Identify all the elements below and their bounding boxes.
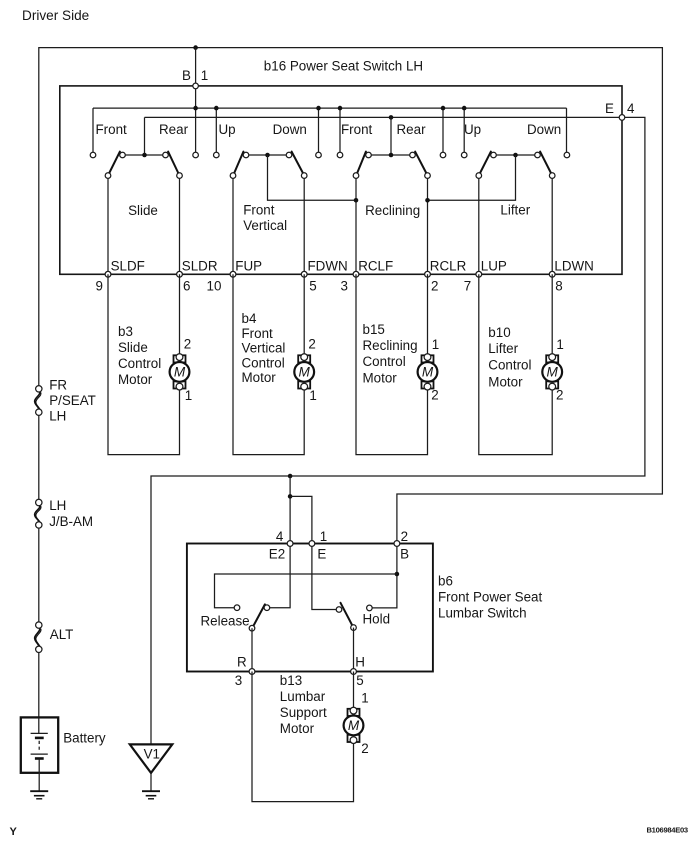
svg-text:SLDF: SLDF (111, 258, 145, 273)
terminal SLDR of b16 (177, 271, 183, 277)
wire E branch (290, 496, 312, 543)
wire B bus drop to contact Front2 (339, 108, 341, 152)
svg-text:FDWN: FDWN (308, 258, 348, 273)
svg-text:2: 2 (401, 529, 408, 544)
fuse FR P/SEAT LH (35, 386, 42, 416)
svg-text:Up: Up (464, 122, 481, 137)
motor b3 Slide Control Motor (170, 354, 190, 390)
wire E bus drop to Reclining common (390, 117, 392, 155)
svg-text:RCLF: RCLF (358, 258, 393, 273)
svg-text:Control: Control (488, 358, 531, 373)
svg-text:2: 2 (308, 336, 315, 351)
terminal LDWN of b16 (549, 271, 555, 277)
terminal B pin2 of b6 (394, 541, 400, 547)
svg-text:LUP: LUP (481, 258, 507, 273)
svg-text:2: 2 (556, 388, 563, 403)
svg-text:5: 5 (356, 673, 363, 688)
wire E bus drop to Slide common (144, 117, 146, 155)
op box b6 Front Power Seat Lumbar Switch (187, 544, 433, 672)
label LH J/B-AM (49, 498, 93, 529)
svg-text:8: 8 (555, 279, 562, 294)
switch Reclining (337, 152, 446, 275)
switch Front Vertical (214, 152, 322, 275)
svg-text:J/B-AM: J/B-AM (49, 514, 93, 529)
svg-text:2: 2 (431, 388, 438, 403)
svg-text:Front: Front (243, 203, 275, 218)
terminal FDWN of b16 (301, 271, 307, 277)
svg-text:2: 2 (431, 279, 438, 294)
svg-text:3: 3 (341, 279, 348, 294)
svg-text:Slide: Slide (128, 203, 158, 218)
svg-text:4: 4 (627, 101, 635, 116)
terminal E pin1 of b6 (309, 541, 315, 547)
svg-text:SLDR: SLDR (182, 258, 218, 273)
wire B bus drop to contact Down1 (318, 108, 320, 152)
svg-text:FR: FR (49, 377, 67, 392)
wire b10 loop (479, 274, 552, 454)
wire B branch to Release contact (215, 574, 397, 608)
svg-text:Support: Support (280, 705, 327, 720)
svg-text:Release: Release (201, 613, 250, 628)
svg-text:4: 4 (276, 529, 284, 544)
svg-text:b16 Power Seat Switch LH: b16 Power Seat Switch LH (264, 58, 423, 73)
wire rail fuse3-battery (38, 649, 40, 717)
junction dot on B bus (338, 106, 343, 111)
junction dot on E bus (389, 115, 394, 120)
wire E internal to Hold arm (312, 544, 336, 610)
junction dot on B bus (193, 106, 198, 111)
svg-text:LH: LH (49, 408, 66, 423)
svg-text:Front: Front (242, 326, 274, 341)
svg-text:H: H (355, 654, 365, 669)
junction dot on RCLR wire (425, 198, 430, 203)
svg-text:6: 6 (183, 279, 190, 294)
terminal SLDF of b16 (105, 271, 111, 277)
terminal RCLF of b16 (353, 271, 359, 277)
svg-text:10: 10 (207, 279, 222, 294)
wire B bus drop to contact Front1 (92, 108, 94, 152)
label b6 Front Power Seat Lumbar Switch (438, 573, 542, 620)
svg-text:b4: b4 (242, 311, 257, 326)
label b13 Lumbar Support Motor (280, 673, 327, 736)
svg-text:Driver Side: Driver Side (22, 8, 89, 23)
svg-text:FUP: FUP (235, 258, 262, 273)
svg-text:9: 9 (96, 279, 103, 294)
terminal E2 pin4 of b6 (287, 541, 293, 547)
svg-text:Lifter: Lifter (500, 202, 530, 217)
svg-text:Slide: Slide (118, 340, 148, 355)
switch Release (234, 604, 270, 671)
svg-text:Motor: Motor (242, 370, 277, 385)
svg-text:Vertical: Vertical (242, 341, 286, 356)
fuse LH J/B-AM (35, 499, 42, 528)
terminal R pin3 of b6 (249, 669, 255, 675)
wire E-link Lifter common to RCLR (428, 155, 516, 200)
wire E2 internal to Release arm (270, 544, 290, 608)
wire rail fuse2-fuse3 (38, 525, 40, 626)
junction dot top line to b16 B (193, 45, 198, 50)
svg-text:Motor: Motor (488, 375, 523, 390)
motor b13 Lumbar Support Motor (344, 707, 364, 743)
svg-text:Lumbar: Lumbar (280, 689, 326, 704)
wire B bus drop to contact Up1 (215, 108, 217, 152)
svg-text:b13: b13 (280, 673, 302, 688)
wire rail fuse1-fuse2 (38, 412, 40, 503)
motor b10 Lifter Control Motor (542, 354, 562, 390)
wire B bus drop to contact Down2 (566, 108, 568, 152)
svg-text:1: 1 (309, 388, 316, 403)
svg-text:1: 1 (432, 337, 439, 352)
ground (battery) (30, 791, 48, 799)
terminal LUP of b16 (476, 271, 482, 277)
label FR P/SEAT LH (49, 377, 96, 423)
svg-text:Reclining: Reclining (363, 338, 418, 353)
svg-text:1: 1 (185, 388, 192, 403)
svg-text:b6: b6 (438, 573, 453, 588)
wire battery B+ net: left rail top, top line, right side down to lumbar B feed (39, 48, 663, 544)
svg-text:Front: Front (96, 122, 128, 137)
terminal B pin1 of b16 (193, 83, 199, 89)
svg-text:M: M (348, 718, 360, 733)
label b4 Front Vertical Control Motor (242, 311, 286, 385)
svg-text:b3: b3 (118, 324, 133, 339)
svg-text:Motor: Motor (118, 372, 153, 387)
svg-text:Motor: Motor (280, 721, 315, 736)
svg-text:E: E (605, 101, 614, 116)
svg-text:3: 3 (235, 673, 242, 688)
svg-text:b15: b15 (363, 322, 385, 337)
svg-text:Down: Down (273, 122, 307, 137)
wire ground net: E pin4 right, down, across to V1 (151, 117, 645, 744)
wire E-link Front Vertical common to RCLF (268, 155, 357, 200)
junction dot on RCLF wire (354, 198, 359, 203)
wire E bus (145, 116, 623, 118)
svg-text:7: 7 (464, 279, 471, 294)
wire B bus (93, 107, 567, 109)
svg-text:Reclining: Reclining (365, 203, 420, 218)
terminal H pin5 of b6 (351, 669, 357, 675)
svg-text:b10: b10 (488, 325, 510, 340)
wire B internal to Hold contact (372, 544, 397, 608)
switch Slide (90, 152, 198, 275)
svg-text:5: 5 (309, 279, 316, 294)
ground symbol V1 (130, 744, 173, 790)
svg-text:Lumbar Switch: Lumbar Switch (438, 606, 527, 621)
battery (21, 717, 58, 790)
svg-text:Rear: Rear (159, 122, 189, 137)
wire E2 drop (289, 476, 291, 544)
svg-text:RCLR: RCLR (430, 258, 467, 273)
svg-text:1: 1 (201, 68, 208, 83)
switch Lifter (461, 152, 569, 275)
svg-text:Y: Y (10, 826, 18, 838)
junction dot ground line to E2 (288, 474, 293, 479)
label b15 Reclining Control Motor (363, 322, 418, 386)
svg-text:B106984E03: B106984E03 (647, 826, 688, 835)
wire B bus drop to contact Rear2 (442, 108, 444, 152)
svg-text:2: 2 (184, 336, 191, 351)
svg-text:1: 1 (361, 690, 368, 705)
op box b16 Power Seat Switch LH (60, 86, 622, 274)
svg-text:M: M (299, 365, 311, 380)
svg-text:Up: Up (219, 122, 236, 137)
svg-text:E2: E2 (269, 546, 285, 561)
ground (V1) (142, 791, 160, 799)
junction dot on B bus (316, 106, 321, 111)
junction dot on B bus (462, 106, 467, 111)
svg-text:Rear: Rear (397, 122, 427, 137)
wire H to lumbar motor (353, 672, 355, 711)
junction dot on B bus (441, 106, 446, 111)
svg-text:1: 1 (320, 529, 327, 544)
fuse ALT (35, 622, 42, 653)
junction dot on B bus (214, 106, 219, 111)
wire b3 loop (108, 274, 180, 454)
label b10 Lifter Control Motor (488, 325, 531, 390)
svg-text:R: R (237, 654, 247, 669)
svg-text:V1: V1 (144, 746, 160, 761)
motor b4 Front Vertical Control Motor (294, 354, 314, 390)
svg-text:Motor: Motor (363, 371, 398, 386)
wire b16 pin1 B vertical (195, 48, 197, 153)
svg-text:ALT: ALT (50, 627, 74, 642)
svg-text:Down: Down (527, 122, 561, 137)
svg-text:B: B (400, 546, 409, 561)
svg-text:E: E (317, 546, 326, 561)
svg-text:Battery: Battery (63, 731, 106, 746)
svg-text:1: 1 (556, 337, 563, 352)
terminal RCLR of b16 (425, 271, 431, 277)
svg-text:LDWN: LDWN (554, 258, 593, 273)
svg-text:Control: Control (242, 355, 285, 370)
svg-text:Lifter: Lifter (488, 341, 518, 356)
svg-text:LH: LH (49, 498, 66, 513)
svg-text:Hold: Hold (363, 612, 391, 627)
wire b15 loop (356, 274, 428, 454)
svg-text:B: B (182, 68, 191, 83)
wire B bus drop to contact Up2 (463, 108, 465, 152)
svg-text:2: 2 (361, 741, 368, 756)
terminal E pin4 of b16 (619, 115, 625, 121)
svg-text:M: M (547, 365, 559, 380)
label b3 Slide Control Motor (118, 324, 161, 387)
motor b15 Reclining Control Motor (418, 354, 438, 390)
svg-text:Front: Front (341, 122, 373, 137)
svg-text:P/SEAT: P/SEAT (49, 393, 96, 408)
wire b4 loop (233, 274, 304, 454)
svg-text:Vertical: Vertical (243, 218, 287, 233)
terminal FUP of b16 (230, 271, 236, 277)
switch Hold (336, 603, 372, 672)
svg-text:Control: Control (118, 356, 161, 371)
svg-text:Front Power Seat: Front Power Seat (438, 590, 542, 605)
wire R loop to lumbar motor (252, 672, 354, 802)
svg-text:M: M (174, 365, 186, 380)
junction dot E2/E split (288, 494, 293, 499)
junction dot B internal (395, 572, 400, 577)
svg-text:M: M (422, 365, 434, 380)
svg-text:Control: Control (363, 354, 406, 369)
